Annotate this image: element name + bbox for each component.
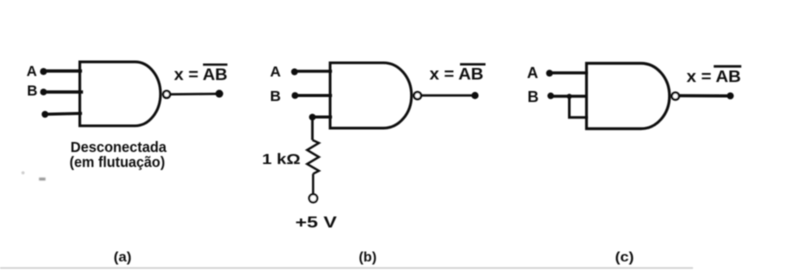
output label x = AB (gate c) [687, 66, 742, 86]
output terminal dot (gate b) [471, 92, 478, 99]
wire input B to gate (b) [295, 94, 332, 97]
svg-text:A: A [270, 64, 281, 81]
svg-text:(c): (c) [615, 249, 634, 265]
output wire (gate c) [680, 94, 730, 97]
output wire (gate a) [170, 93, 219, 96]
inversion bubble (gate a) [163, 91, 170, 98]
caption Desconectada (em flutuacao) [70, 139, 168, 171]
wire input A to gate (b) [295, 70, 333, 73]
output label x = AB (gate a) [174, 65, 228, 85]
resistor R1 1 kOhm [307, 140, 319, 174]
jumper wire down from B (c) [568, 96, 571, 117]
jumper wire to third input (c) [568, 116, 588, 119]
output terminal dot (gate c) [727, 92, 734, 99]
NAND gate body U2 (b) [330, 63, 411, 128]
input terminal dot A (gate b) [291, 68, 298, 75]
NAND gate body U1 (a) [80, 62, 161, 126]
input terminal dot B (gate c) [547, 93, 554, 100]
wire input A to gate (c) [550, 71, 589, 74]
output terminal dot (gate a) [215, 90, 223, 98]
svg-text:B: B [270, 88, 281, 105]
svg-text:x = AB: x = AB [687, 68, 742, 86]
svg-text:B: B [27, 84, 37, 100]
junction dot jumper/B wire (c) [567, 94, 572, 99]
input terminal dot B (gate a) [40, 89, 47, 96]
open terminal +5V (b) [309, 194, 317, 202]
svg-text:x = AB: x = AB [174, 66, 228, 84]
wire third input to gate (b) [312, 116, 332, 119]
inversion bubble (gate b) [414, 92, 421, 99]
output wire (gate b) [422, 94, 475, 96]
inversion bubble (gate c) [672, 93, 679, 100]
scan artifacts (decorative) [39, 178, 46, 181]
wire input B to gate (c) [551, 95, 586, 98]
svg-text:+5 V: +5 V [295, 215, 337, 232]
svg-text:A: A [527, 65, 538, 82]
junction dot third input (gate b) [309, 114, 316, 121]
output label x = AB (gate b) [430, 64, 486, 83]
NAND gate body U3 (c) [587, 63, 670, 128]
svg-text:(b): (b) [359, 249, 377, 265]
svg-text:B: B [528, 89, 539, 106]
wire floating input to gate (a) [45, 112, 82, 116]
input terminal dot A (gate a) [40, 68, 47, 75]
svg-text:1 kΩ: 1 kΩ [262, 151, 301, 168]
wire resistor to +5V terminal (b) [312, 174, 314, 194]
wire third input down to resistor (b) [311, 117, 314, 140]
svg-text:(em flutuação): (em flutuação) [70, 154, 166, 171]
floating input terminal dot (gate a) [42, 111, 49, 118]
svg-text:x = AB: x = AB [430, 66, 484, 84]
svg-text:A: A [27, 64, 38, 80]
wire input A to gate (a) [44, 69, 83, 72]
input terminal dot A (gate c) [546, 70, 553, 77]
svg-text:(a): (a) [114, 249, 132, 265]
wire input B to gate (a) [44, 90, 84, 93]
input terminal dot B (gate b) [292, 92, 299, 99]
